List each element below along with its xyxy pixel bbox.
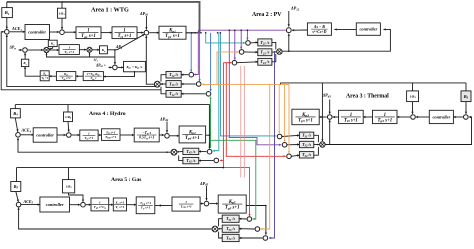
svg-text:Thp s: Thp s [90,76,97,81]
svg-text:Kpc + Kpi /s: Kpc + Kpi /s [125,65,143,70]
svg-text:controller: controller [359,27,377,32]
svg-text:Tw s+1: Tw s+1 [64,50,74,55]
svg-text:1/R5: 1/R5 [66,185,73,190]
svg-text:TF s+1: TF s+1 [141,206,151,211]
svg-text:B1: B1 [4,10,10,16]
svg-text:Area 3 : Thermal: Area 3 : Thermal [346,93,389,99]
svg-text:T14 /s: T14 /s [169,91,178,97]
svg-text:s²+Cs+D: s²+Cs+D [311,30,326,34]
svg-text:1/R4: 1/R4 [65,115,72,120]
svg-text:As − B: As − B [313,25,325,29]
svg-text:T54 /s: T54 /s [226,235,235,241]
svg-text:1: 1 [99,200,101,204]
svg-text:Tg1 s+1: Tg1 s+1 [81,34,96,39]
svg-text:T21 /s: T21 /s [260,40,269,46]
svg-text:T13 /s: T13 /s [169,81,178,87]
svg-text:Tp5 s+1: Tp5 s+1 [225,206,240,211]
svg-text:Area 1 : WTG: Area 1 : WTG [91,6,129,13]
svg-text:T23 /s: T23 /s [260,50,269,56]
svg-text:T53 /s: T53 /s [226,226,235,232]
svg-text:Tp1 s+1: Tp1 s+1 [165,34,180,39]
svg-text:ΔPd3: ΔPd3 [322,93,332,99]
svg-text:Tp3 s+1: Tp3 s+1 [298,119,313,124]
svg-text:T32 /s: T32 /s [302,142,311,148]
svg-text:ACE1: ACE1 [11,26,22,32]
svg-text:Area 2 : PV: Area 2 : PV [252,12,282,18]
svg-text:ΔPd5: ΔPd5 [199,181,209,187]
svg-text:Area 4 : Hydro: Area 4 : Hydro [89,111,126,117]
svg-text:controller: controller [28,30,46,35]
svg-text:ΔPd1: ΔPd1 [139,11,149,17]
svg-text:T45 /s: T45 /s [186,149,195,155]
svg-text:T24 /s: T24 /s [260,59,269,65]
svg-text:ΔPd4: ΔPd4 [159,116,169,122]
svg-text:Tp4 s+1: Tp4 s+1 [185,136,200,141]
svg-text:T42 /s: T42 /s [186,158,195,164]
svg-text:B3: B3 [463,94,469,100]
svg-text:B4: B4 [12,111,18,117]
svg-text:controller: controller [36,133,54,138]
svg-text:Tt3 s+1: Tt3 s+1 [344,119,358,124]
svg-text:Tt1 s+1: Tt1 s+1 [118,34,132,39]
svg-text:ΔPac +: ΔPac + [95,63,106,68]
svg-text:ACE5: ACE5 [23,199,34,205]
svg-text:Tg3 s+1: Tg3 s+1 [377,119,392,124]
svg-text:Area 5 : Gas: Area 5 : Gas [111,177,142,183]
svg-text:1/R3: 1/R3 [409,95,416,100]
svg-text:Tb +1: Tb +1 [41,76,48,81]
svg-text:ACE4: ACE4 [21,128,32,134]
svg-text:controller: controller [432,115,450,120]
svg-text:controller: controller [46,202,64,207]
svg-text:T51 /s: T51 /s [226,216,235,222]
svg-text:B5: B5 [13,184,19,190]
svg-text:T12 /s: T12 /s [169,72,178,78]
svg-text:T31 /s: T31 /s [302,133,311,139]
svg-text:Yc s+1: Yc s+1 [115,205,124,210]
svg-text:1: 1 [185,200,187,204]
svg-text:ΔP12: ΔP12 [290,6,300,12]
svg-text:TRH s+1: TRH s+1 [105,135,117,140]
svg-text:Tdc s+1: Tdc s+1 [61,76,71,81]
svg-text:T4 s+1: T4 s+1 [84,136,93,141]
svg-text:1: 1 [88,131,90,135]
svg-text:1: 1 [68,45,70,49]
svg-text:TCD s+1: TCD s+1 [180,204,192,209]
svg-text:T34 /s: T34 /s [302,152,311,158]
